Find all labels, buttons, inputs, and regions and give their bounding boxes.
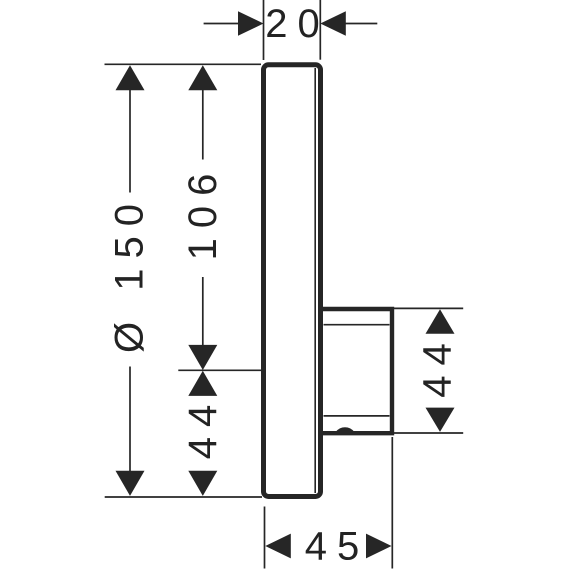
svg-text:106: 106 (181, 164, 225, 261)
svg-text:20: 20 (265, 2, 330, 46)
svg-text:44: 44 (181, 395, 225, 460)
svg-text:44: 44 (416, 333, 460, 398)
svg-text:45: 45 (305, 525, 370, 569)
svg-text:Ø 150: Ø 150 (108, 194, 152, 353)
